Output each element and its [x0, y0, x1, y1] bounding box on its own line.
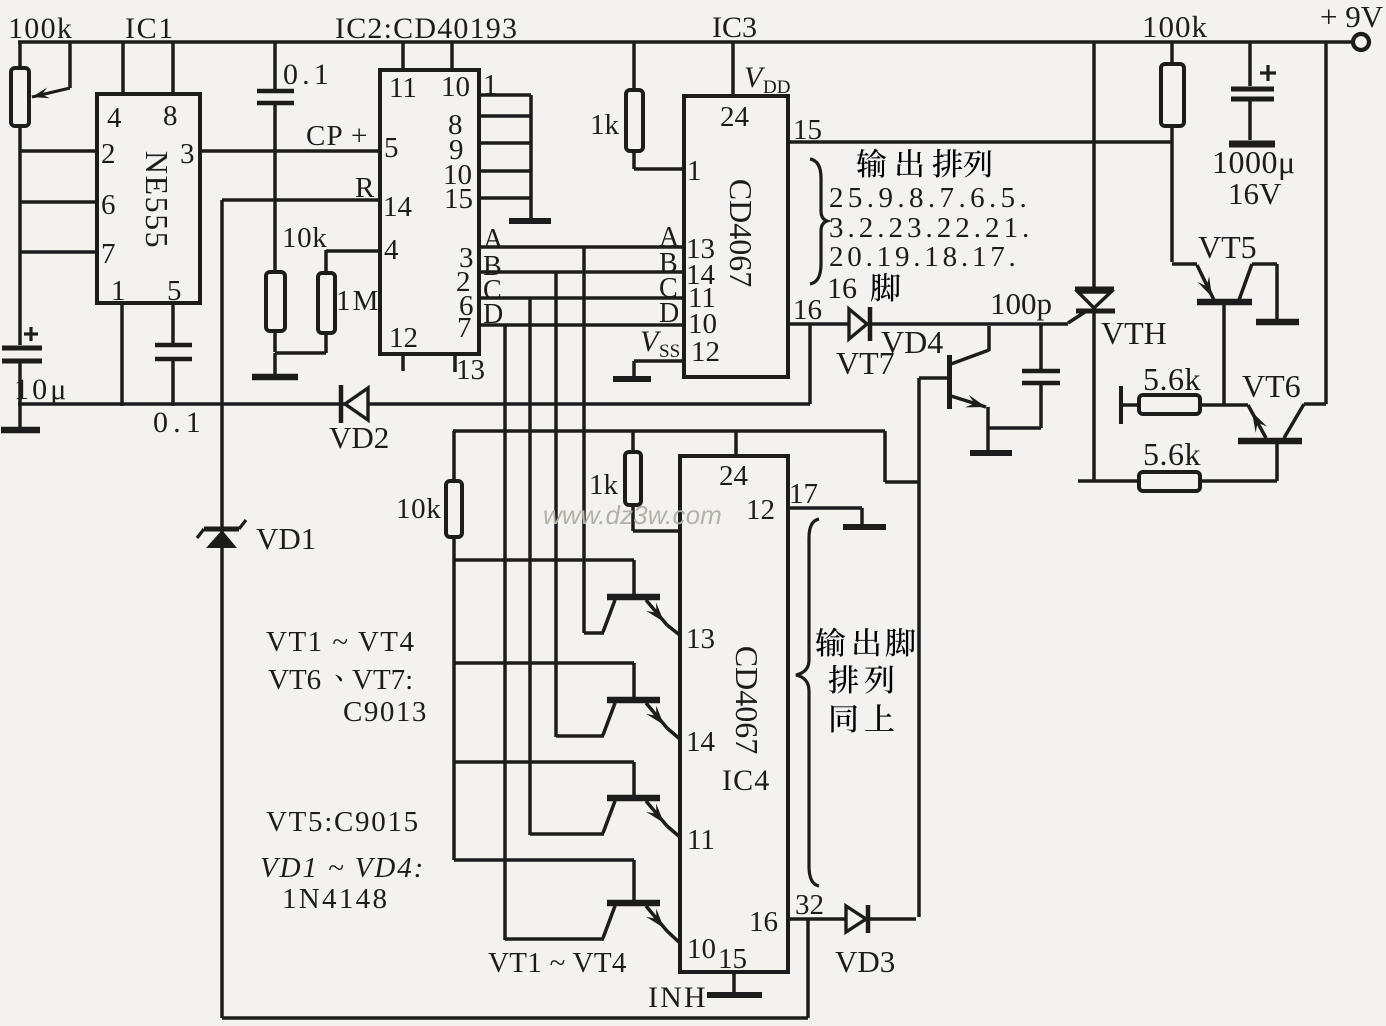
svg-text:CP +: CP + [306, 120, 368, 152]
svg-text:VD1: VD1 [256, 521, 316, 556]
svg-text:CD4067: CD4067 [729, 646, 765, 754]
svg-text:11: 11 [687, 824, 715, 856]
svg-text:2: 2 [101, 138, 116, 170]
svg-text:7: 7 [457, 312, 472, 344]
svg-text:D: D [659, 298, 679, 329]
svg-text:0.1: 0.1 [153, 406, 206, 439]
svg-text:IC1: IC1 [125, 12, 175, 45]
svg-text:IC3: IC3 [712, 11, 757, 44]
svg-text:16: 16 [827, 272, 857, 305]
svg-text:32: 32 [795, 889, 824, 921]
svg-text:17: 17 [789, 478, 818, 510]
svg-text:14: 14 [383, 191, 413, 223]
svg-text:12: 12 [691, 336, 720, 368]
svg-text:VT1 ~ VT4: VT1 ~ VT4 [266, 626, 415, 658]
svg-text:1: 1 [111, 275, 126, 307]
svg-text:3.2.23.22.21.: 3.2.23.22.21. [829, 212, 1033, 244]
svg-text:1: 1 [687, 155, 702, 187]
svg-text:IC2:CD40193: IC2:CD40193 [335, 12, 518, 45]
svg-text:INH: INH [648, 981, 708, 1014]
svg-text:+ 9V: + 9V [1320, 0, 1384, 34]
svg-text:100k: 100k [8, 12, 73, 45]
svg-text:13: 13 [456, 354, 485, 386]
svg-text:www.dz3w.com: www.dz3w.com [543, 500, 722, 530]
svg-text:7: 7 [101, 238, 116, 270]
svg-text:CD4067: CD4067 [723, 179, 759, 287]
svg-text:12: 12 [389, 322, 418, 354]
svg-text:VT7: VT7 [836, 345, 895, 381]
svg-text:1M: 1M [336, 285, 381, 317]
svg-text:R: R [355, 172, 375, 204]
svg-text:14: 14 [686, 726, 716, 758]
svg-text:4: 4 [107, 102, 122, 134]
svg-text:1k: 1k [590, 109, 620, 141]
svg-text:VD2: VD2 [329, 420, 389, 455]
svg-text:VT5: VT5 [1198, 229, 1257, 265]
svg-text:SS: SS [659, 341, 680, 362]
svg-text:1000μ: 1000μ [1212, 144, 1296, 180]
svg-text:13: 13 [686, 623, 715, 655]
svg-text:1k: 1k [589, 469, 619, 501]
svg-text:VT5:C9015: VT5:C9015 [266, 806, 420, 838]
svg-text:25.9.8.7.6.5.: 25.9.8.7.6.5. [829, 182, 1031, 214]
svg-text:12: 12 [746, 494, 775, 526]
svg-text:6: 6 [101, 189, 116, 221]
svg-text:0.1: 0.1 [283, 58, 333, 91]
svg-text:11: 11 [389, 72, 417, 104]
svg-text:DD: DD [763, 77, 790, 98]
svg-text:VD3: VD3 [835, 944, 895, 979]
svg-text:8: 8 [163, 100, 178, 132]
svg-text:VT6: VT6 [1242, 368, 1301, 404]
svg-text:100k: 100k [1142, 9, 1208, 44]
svg-text:VT7:: VT7: [352, 664, 413, 696]
svg-text:16: 16 [793, 294, 822, 326]
svg-text:3: 3 [180, 138, 195, 170]
svg-text:10: 10 [687, 933, 716, 965]
svg-text:16V: 16V [1228, 176, 1282, 211]
svg-text:5.6k: 5.6k [1143, 436, 1201, 472]
svg-text:4: 4 [384, 234, 399, 266]
svg-text:VT1 ~ VT4: VT1 ~ VT4 [488, 947, 627, 979]
svg-text:15: 15 [444, 183, 473, 215]
svg-text:10k: 10k [282, 222, 327, 254]
svg-text:16: 16 [749, 906, 778, 938]
svg-text:24: 24 [719, 460, 749, 492]
svg-text:VTH: VTH [1101, 315, 1167, 351]
svg-text:10μ: 10μ [14, 373, 69, 406]
svg-text:10k: 10k [396, 493, 441, 525]
svg-text:VT6: VT6 [268, 664, 321, 696]
svg-text:1N4148: 1N4148 [282, 883, 389, 915]
svg-text:VD1 ~ VD4:: VD1 ~ VD4: [260, 852, 425, 884]
svg-text:20.19.18.17.: 20.19.18.17. [829, 241, 1020, 273]
svg-text:24: 24 [720, 101, 750, 133]
svg-text:C9013: C9013 [343, 696, 428, 728]
svg-text:5: 5 [384, 132, 399, 164]
svg-text:5.6k: 5.6k [1143, 361, 1201, 397]
svg-text:15: 15 [718, 943, 747, 975]
svg-text:IC4: IC4 [722, 764, 770, 797]
svg-text:NE555: NE555 [139, 151, 175, 249]
svg-text:5: 5 [167, 275, 182, 307]
svg-text:100p: 100p [990, 286, 1052, 321]
svg-text:10: 10 [441, 71, 470, 103]
